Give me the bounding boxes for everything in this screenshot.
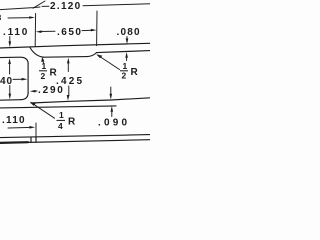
wire: oblique tick (33, 1, 45, 8)
stock strip bottom line (0, 140, 150, 143)
arrowhead: .110 up at notch top (8, 58, 11, 64)
svg-text:R: R (131, 67, 139, 78)
svg-text:R: R (68, 117, 76, 128)
wire: .090 upper arrow stem (110, 87, 112, 95)
notch bottom radius 1/4R (21, 93, 28, 100)
wire: 2.120 dim line left (0, 7, 40, 10)
stock tick 2 (35, 137, 37, 142)
svg-text:.080: .080 (117, 27, 141, 38)
wire: dash before 2.120 (42, 5, 49, 7)
arrowhead: y17 right (29, 16, 35, 19)
svg-text:R: R (50, 68, 58, 79)
svg-text:1: 1 (123, 61, 128, 71)
svg-text:4: 4 (58, 121, 63, 131)
wire: .080 upper arrow stem (126, 37, 128, 41)
arrowhead: .090 down (110, 94, 113, 100)
arrowhead: 1/2R right leader (96, 54, 102, 58)
wire: .090 lower arrow stem (111, 110, 113, 117)
inner bottom line (31, 98, 150, 103)
part top edge T1 (0, 43, 150, 48)
wire: .110 lower / 40-dim shared stem (9, 62, 11, 74)
svg-text:1: 1 (42, 61, 47, 71)
wire: 1/4R leader (32, 103, 55, 118)
wire: extension line left (x=35) (34, 14, 36, 47)
arrowhead: .110 bottom right (29, 126, 35, 129)
wire: .650 dim line left part (40, 30, 55, 32)
notch bottom edge (0, 99, 21, 102)
wire: 1/2R right leader (98, 55, 120, 70)
wire: .290 arrow line (34, 90, 38, 92)
notch top edge (0, 57, 28, 63)
arrowhead: .650 right (91, 29, 97, 32)
arrowhead: 40 down at notch bottom (9, 94, 12, 100)
arrowhead: 1/4R leader (30, 102, 36, 106)
arrowhead: .090 up (111, 106, 114, 112)
stock tick 1 (30, 137, 32, 142)
svg-text:.425: .425 (56, 76, 84, 87)
arrowhead: .080 down (126, 38, 129, 44)
label 1/4 R bottom (57, 110, 77, 131)
wire: 2.120 dim line right (83, 4, 150, 6)
part bottom edge (0, 106, 116, 108)
svg-text:40: 40 (0, 76, 13, 87)
arrowhead: .080 up (125, 52, 128, 58)
arrowhead: .290 left (30, 90, 36, 93)
label 1/2 R left (39, 61, 58, 81)
svg-text:.110: .110 (3, 27, 29, 38)
wire: .425 lower stem (68, 86, 70, 96)
lip upper-right surface (97, 51, 151, 53)
wire: bottom extension line x=36 (35, 123, 37, 137)
fillet 1/2R right step-up (87, 53, 97, 57)
label 1/2 R right (120, 61, 139, 81)
svg-text:2: 2 (41, 71, 46, 81)
wire: 1/2R left leader (42, 60, 45, 64)
svg-text:8: 8 (0, 13, 3, 23)
svg-text:.090: .090 (98, 118, 130, 129)
arrowhead: 40 leader right (22, 78, 28, 81)
wire: .080 lower arrow stem (126, 56, 128, 61)
stock strip top line (0, 135, 150, 138)
arrowhead: .425 down (67, 95, 70, 101)
svg-text:2: 2 (122, 71, 127, 81)
svg-text:1: 1 (59, 110, 64, 120)
wire: .425 upper arrow stem (67, 62, 69, 72)
svg-text:.650: .650 (57, 27, 82, 38)
notch wall vertical (27, 63, 29, 93)
wire: 40-dim leader to wall (13, 78, 24, 80)
svg-text:2.120: 2.120 (50, 1, 82, 12)
arrowhead: .425 up (67, 58, 70, 64)
arrowhead: 1/2R left leader (41, 57, 44, 62)
wire: .650 dim line right part (82, 29, 93, 31)
wire: .110 bottom dim line (8, 126, 32, 129)
svg-text:.110: .110 (2, 115, 26, 126)
lower lip surface T2 (44, 56, 87, 59)
wire: .110 upper arrow stem (9, 37, 11, 44)
arrowhead: .650 left (36, 30, 42, 33)
fillet 1/2R left step-down (30, 48, 44, 58)
wire: arrow line y=17 (8, 17, 32, 19)
wire: 40-dim lower stem (9, 86, 11, 96)
arrowhead: .110 down at T1 (9, 41, 12, 47)
stock strip bottom-left heavy segment (0, 141, 28, 144)
wire: extension line right (x=97) (96, 11, 98, 46)
